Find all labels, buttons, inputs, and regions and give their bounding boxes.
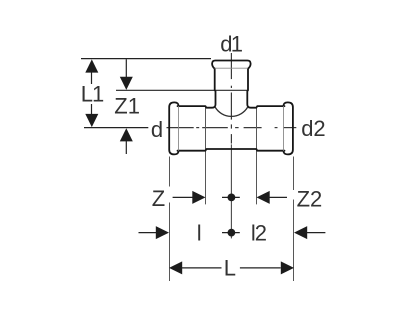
svg-text:L: L — [224, 256, 236, 281]
left socket top wall + pipe top left segment + branch left wall — [178, 69, 216, 108]
left socket bottom wall — [178, 149, 285, 151]
svg-text:Z2: Z2 — [297, 186, 323, 211]
pipe top right segment + branch right wall — [247, 69, 284, 108]
wire: dimension reference line A (top of branch) — [81, 58, 211, 60]
svg-text:d1: d1 — [220, 32, 242, 57]
dimension L row — [169, 261, 294, 274]
node: horizontal centerline (dash-dot) — [167, 127, 297, 129]
saddle arc inside pipe — [215, 107, 247, 116]
wire: fitting right end witness — [293, 157, 295, 191]
svg-text:d2: d2 — [301, 116, 325, 141]
branch bead top — [212, 61, 251, 69]
svg-text:d: d — [151, 117, 163, 142]
thin bead inner edge right — [283, 106, 285, 151]
svg-text:Z: Z — [152, 186, 165, 211]
wire: branch internal stop line — [215, 89, 248, 91]
fitting body outline — [169, 61, 293, 155]
wire: socket stop witness left (through fitting) — [205, 107, 207, 204]
svg-text:Z1: Z1 — [114, 93, 140, 118]
svg-text:L1: L1 — [81, 82, 104, 107]
wire: centerline extension left of fitting — [84, 127, 148, 129]
dimension l row — [139, 226, 326, 239]
thin bead inner edge left — [178, 106, 180, 151]
node: vertical centerline (dash-dot) — [230, 53, 232, 144]
dimension L1 — [85, 59, 98, 127]
thin bead inner edge branch — [215, 67, 248, 69]
wire: center witness line below fitting — [230, 144, 232, 238]
labels group — [81, 32, 326, 281]
svg-text:l2: l2 — [251, 221, 267, 246]
left press bead (stadium) — [169, 102, 178, 154]
wire: dimension reference line B (branch socket stop plane) — [116, 89, 215, 91]
dimension Z row — [173, 191, 287, 204]
wire: socket stop witness right (through fitting) — [256, 107, 258, 204]
dimension Z1 — [120, 59, 133, 154]
wire: fitting left end witness — [169, 157, 171, 187]
right press bead (stadium) — [283, 102, 292, 154]
svg-text:l: l — [197, 221, 202, 246]
